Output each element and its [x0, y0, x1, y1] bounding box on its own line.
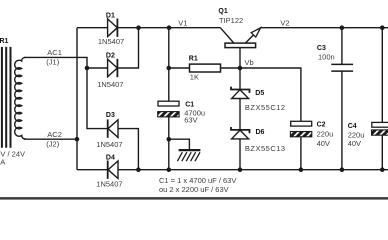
- zener diode D6: [231, 127, 250, 139]
- wire C3 branch lower: [341, 71, 343, 170]
- capacitor C4: [372, 122, 388, 135]
- svg-text:C1 = 1 x 4700 uF / 63V: C1 = 1 x 4700 uF / 63V: [159, 176, 236, 185]
- svg-text:D6: D6: [256, 129, 265, 136]
- capacitor C2: [290, 121, 311, 137]
- wire D2 row: [87, 28, 139, 68]
- wire Vb row to C2: [240, 68, 301, 121]
- svg-text:D1: D1: [106, 12, 115, 19]
- diode D1: [108, 19, 118, 37]
- svg-text:TR1: TR1: [0, 38, 9, 45]
- wire C2 to rail: [300, 137, 302, 170]
- svg-text:220u: 220u: [317, 130, 334, 139]
- wire D3 row: [87, 68, 138, 170]
- svg-text:1N5407: 1N5407: [96, 180, 122, 189]
- node ground junction: [167, 137, 172, 142]
- svg-text:1N5407: 1N5407: [96, 140, 122, 149]
- ground: [177, 150, 200, 161]
- node V1 D1/D2 cathode junction: [136, 25, 141, 30]
- svg-text:C2: C2: [317, 121, 326, 128]
- svg-text:1N5407: 1N5407: [97, 80, 123, 89]
- transformer TR1: [2, 47, 26, 148]
- svg-text:TIP122: TIP122: [219, 16, 243, 25]
- svg-text:(J2): (J2): [46, 140, 59, 149]
- node R1 branch junction: [167, 66, 172, 71]
- capacitor C1: [158, 101, 179, 117]
- wire V1 branch to R1/C1: [168, 28, 170, 102]
- svg-text:V2: V2: [280, 18, 289, 27]
- wire AC2: [24, 138, 77, 140]
- svg-text:D3: D3: [106, 112, 115, 119]
- svg-text:(J1): (J1): [46, 57, 59, 66]
- svg-text:BZX55C13: BZX55C13: [245, 144, 286, 153]
- svg-text:Q1: Q1: [218, 8, 227, 15]
- svg-text:D4: D4: [106, 155, 115, 162]
- wire C3 branch upper: [341, 28, 343, 64]
- svg-text:D5: D5: [255, 90, 264, 97]
- wire V1 rail: [77, 27, 220, 29]
- wire AC2 branch x=77 (D1 anode / D4 cathode): [76, 28, 78, 170]
- svg-text:40V: 40V: [317, 139, 330, 148]
- resistor R1: [190, 64, 221, 72]
- wire negative rail: [77, 169, 388, 171]
- node C2 rail junction: [299, 167, 304, 172]
- node D6 rail junction: [238, 167, 243, 172]
- capacitor C3: [331, 64, 353, 71]
- diode D3: [108, 119, 118, 137]
- svg-text:1K: 1K: [190, 73, 199, 82]
- svg-text:40V: 40V: [348, 139, 361, 148]
- wire V2 rail: [260, 27, 388, 29]
- node AC2 junction: [75, 137, 80, 142]
- svg-text:BZX55C12: BZX55C12: [245, 103, 286, 112]
- node D2 anode junction: [85, 66, 90, 71]
- node V1 R1/C1 junction: [167, 25, 172, 30]
- node C4 rail junction: [380, 167, 385, 172]
- svg-text:AC2: AC2: [47, 130, 62, 139]
- wire C4 branch lower: [381, 135, 383, 170]
- zener diode D5: [231, 87, 250, 99]
- svg-text:100n: 100n: [318, 52, 335, 61]
- svg-text:V1: V1: [178, 18, 187, 27]
- node C3 top junction: [340, 25, 345, 30]
- wire C1 to rail: [168, 117, 170, 170]
- node C4 top junction: [380, 25, 385, 30]
- svg-text:63V: 63V: [184, 116, 197, 125]
- svg-text:1N5407: 1N5407: [98, 37, 124, 46]
- node D3/D4 anode junction: [136, 167, 141, 172]
- diode D4: [108, 161, 118, 179]
- node C3 rail junction: [340, 167, 345, 172]
- wire R1 row: [169, 67, 240, 69]
- svg-text:ou 2 x 2200 uF / 63V: ou 2 x 2200 uF / 63V: [159, 185, 229, 194]
- wire to ground symbol: [169, 139, 190, 149]
- svg-text:C3: C3: [317, 45, 326, 52]
- diode D2: [108, 59, 118, 77]
- svg-text:D2: D2: [106, 52, 115, 59]
- wire C4 branch upper: [381, 28, 383, 123]
- wire zener branch: [239, 68, 241, 170]
- svg-text:2.5A: 2.5A: [0, 157, 5, 166]
- svg-text:C4: C4: [348, 123, 357, 130]
- svg-text:AC1: AC1: [47, 48, 62, 57]
- node Vb: [238, 66, 243, 71]
- wire AC1: [24, 57, 87, 68]
- svg-text:Vb: Vb: [245, 58, 254, 67]
- svg-text:R1: R1: [189, 56, 198, 63]
- node C1 rail junction: [167, 167, 172, 172]
- transistor Q1: [220, 28, 260, 68]
